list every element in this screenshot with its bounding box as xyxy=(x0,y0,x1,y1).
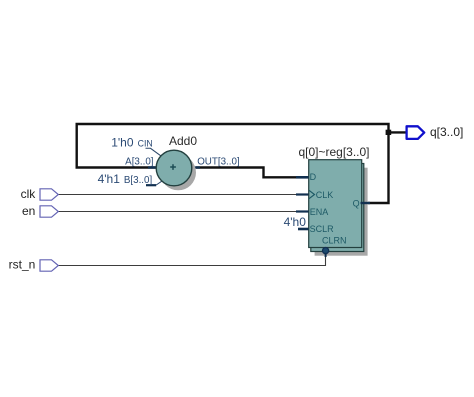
stub: adder CIN connector xyxy=(146,148,162,156)
svg-text:4'h1: 4'h1 xyxy=(98,172,121,186)
stub: register Q output xyxy=(361,202,371,204)
svg-text:OUT[3..0]: OUT[3..0] xyxy=(197,156,240,167)
clock wedge xyxy=(309,190,315,198)
svg-text:CIN: CIN xyxy=(138,138,153,148)
register stack rect 2 xyxy=(311,164,364,252)
register q[0]~reg[3..0] main body xyxy=(309,160,362,248)
svg-text:SCLR: SCLR xyxy=(310,224,335,234)
svg-text:Add0: Add0 xyxy=(169,134,197,148)
svg-text:CLRN: CLRN xyxy=(322,235,347,245)
svg-text:A[3..0]: A[3..0] xyxy=(125,157,154,168)
svg-text:rst_n: rst_n xyxy=(9,258,36,272)
stub: CLRN bubble lead xyxy=(325,253,327,257)
svg-text:Q: Q xyxy=(353,199,360,209)
input port rst_n xyxy=(40,260,58,271)
stub: register SCLR constant input xyxy=(298,228,309,231)
input port en xyxy=(40,206,58,217)
stub: adder A input xyxy=(148,166,158,168)
wire: adder OUT to register D xyxy=(196,168,302,178)
svg-text:q[0]~reg[3..0]: q[0]~reg[3..0] xyxy=(298,145,369,159)
node junction dot xyxy=(386,130,392,135)
wire: branch to output port q[3..0] xyxy=(389,131,408,133)
wire: en to ENA xyxy=(58,211,300,213)
adder Add0 xyxy=(156,150,192,186)
svg-text:en: en xyxy=(22,204,35,218)
svg-text:q[3..0]: q[3..0] xyxy=(430,125,463,139)
output port q[3..0] xyxy=(407,126,425,139)
register shadow xyxy=(315,168,368,256)
svg-text:1'h0: 1'h0 xyxy=(111,135,134,149)
svg-text:4'h0: 4'h0 xyxy=(284,215,307,229)
svg-text:B[3..0]: B[3..0] xyxy=(124,175,153,186)
stub: register CLK input xyxy=(296,193,309,195)
stub: adder B constant connector xyxy=(146,184,156,186)
wire: feedback bus Q to adder A (top loop) xyxy=(77,124,389,203)
svg-text:CLK: CLK xyxy=(316,190,334,200)
adder shadow xyxy=(160,155,196,191)
adder plus sign xyxy=(170,164,176,170)
svg-text:clk: clk xyxy=(21,187,37,201)
svg-text:ENA: ENA xyxy=(310,207,329,217)
wire: clk to CLK xyxy=(58,194,300,196)
stub: register ENA input xyxy=(296,210,309,212)
wire: rst_n to CLRN bubble xyxy=(58,254,326,266)
input port clk xyxy=(40,189,58,200)
stub: register D input xyxy=(296,176,309,179)
CLRN bubble xyxy=(323,248,329,254)
svg-text:D: D xyxy=(310,172,317,182)
stub: adder OUT output xyxy=(190,166,200,168)
